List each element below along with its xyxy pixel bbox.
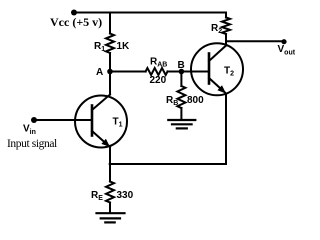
transistor T2 collector diagonal xyxy=(209,46,226,62)
wire T1 emitter down xyxy=(109,147,111,164)
wire RB to ground xyxy=(180,108,182,120)
node A dot xyxy=(107,69,113,75)
wire R1 bottom to T1 collector (through node A) xyxy=(109,53,111,95)
transistor T2 emitter arrowhead xyxy=(217,85,226,93)
resistor R2 xyxy=(222,18,230,35)
svg-text:B: B xyxy=(178,60,185,71)
node B dot xyxy=(179,69,185,75)
svg-text:A: A xyxy=(96,67,103,78)
wire R2 top from rail xyxy=(225,13,227,18)
wire junction to RE xyxy=(109,164,111,182)
wire Vin to T1 base xyxy=(34,119,92,121)
wire top rail Vcc xyxy=(74,12,226,14)
transistor T1 base bar xyxy=(91,106,94,136)
svg-text:330: 330 xyxy=(117,190,134,201)
node emitter junction dot xyxy=(109,163,112,166)
node Vin terminal dot xyxy=(31,117,37,123)
resistor RAB xyxy=(146,68,168,75)
node Vcc terminal dot xyxy=(71,10,77,16)
svg-text:1K: 1K xyxy=(117,41,131,52)
wire R2 bottom to T2 collector xyxy=(225,34,227,46)
transistor T1 emitter arrowhead xyxy=(101,139,110,147)
ground under RB xyxy=(168,120,195,128)
ground under RE xyxy=(97,213,125,222)
resistor R1 xyxy=(106,34,114,54)
transistor T1 collector diagonal xyxy=(92,95,110,111)
transistor T2 base bar xyxy=(208,54,211,84)
wire RE to ground xyxy=(109,203,111,214)
transistor T2 circle xyxy=(191,43,243,95)
resistor RB xyxy=(177,86,185,108)
transistor T1 emitter diagonal xyxy=(92,131,110,147)
resistor RE xyxy=(106,182,114,203)
svg-text:Input signal: Input signal xyxy=(7,138,57,150)
wire node A to RAB xyxy=(110,71,146,73)
wire collector junction to Vout xyxy=(226,40,284,42)
transistor T1 circle xyxy=(75,96,127,148)
wire T2 emitter down leg xyxy=(225,94,227,165)
node Vout terminal dot xyxy=(281,39,286,44)
svg-text:800: 800 xyxy=(187,95,204,106)
wire RAB to T2 base (through node B) xyxy=(168,71,210,73)
wire Vcc rail drop to R1 xyxy=(109,13,111,34)
svg-text:Vcc (+5 v): Vcc (+5 v) xyxy=(50,15,102,29)
wire node B to RB xyxy=(180,72,182,87)
transistor T2 emitter diagonal xyxy=(209,78,226,94)
svg-text:220: 220 xyxy=(150,75,167,86)
wire emitter junction to T2 emitter xyxy=(110,163,226,165)
